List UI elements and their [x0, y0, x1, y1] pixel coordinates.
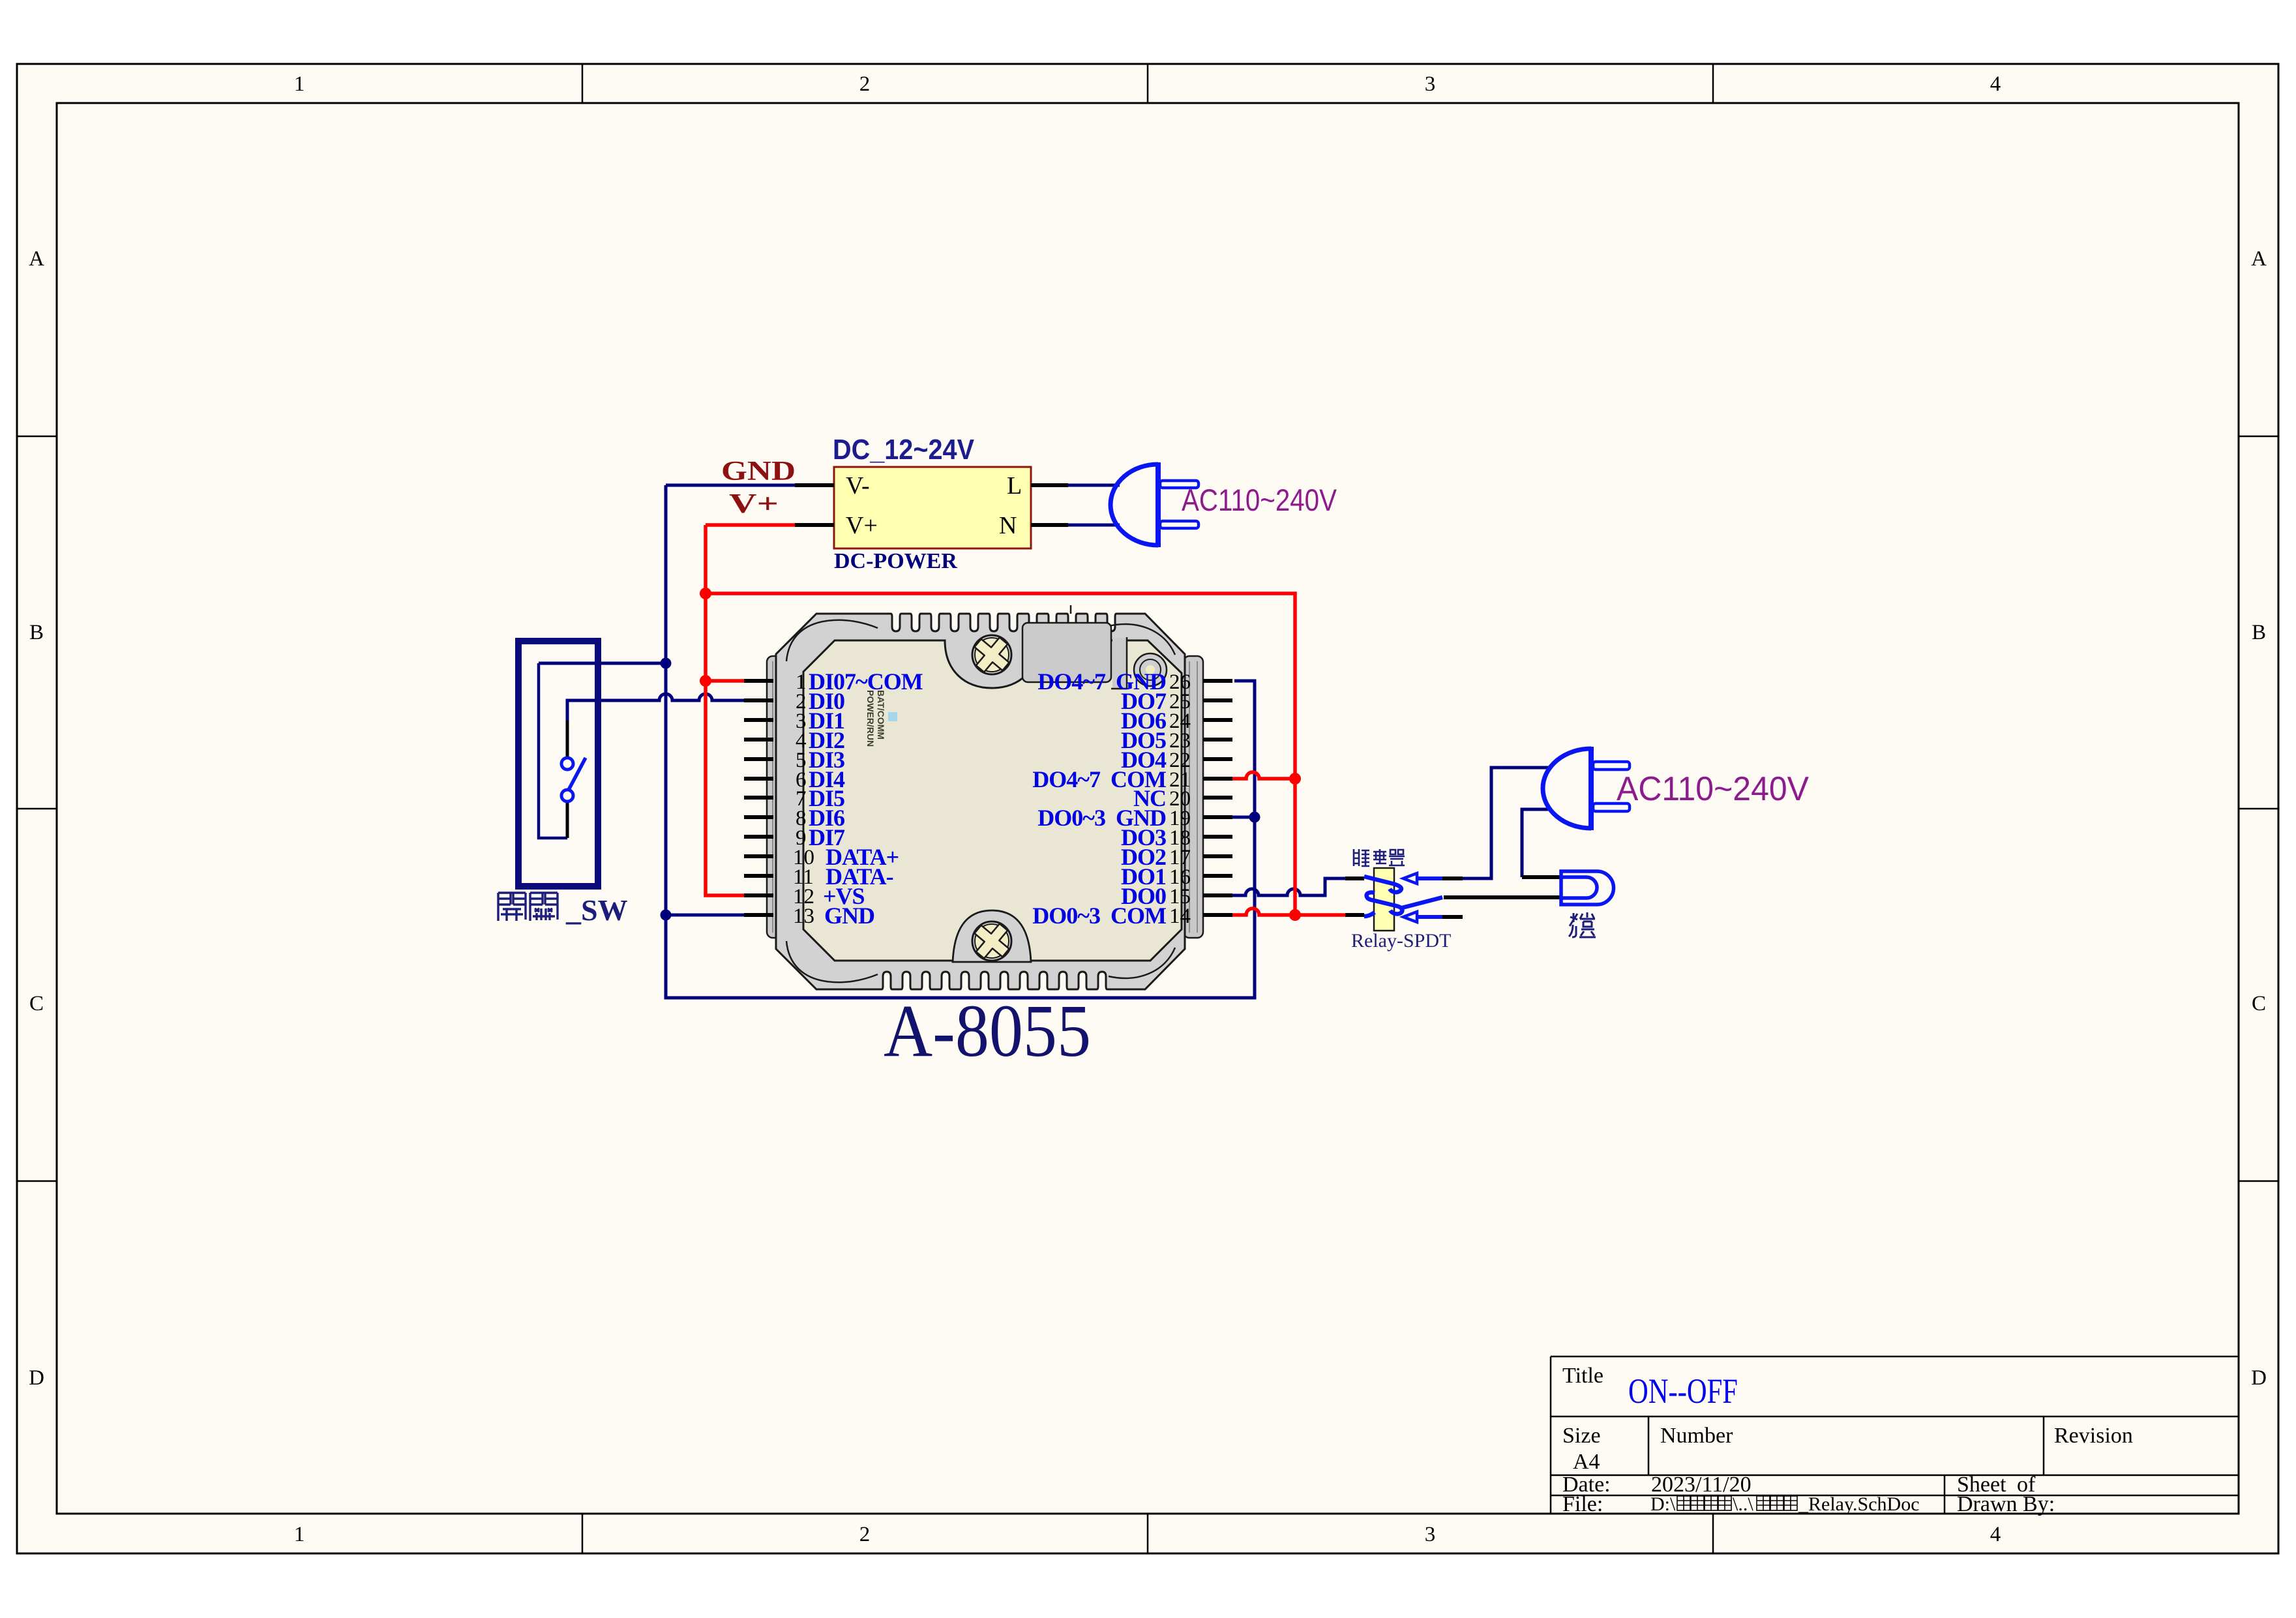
junction V+ top tee [700, 588, 711, 599]
pin labels right [1032, 668, 1167, 929]
switch lead top [566, 721, 569, 757]
label 開關_SW [498, 893, 558, 921]
wire pin19 to bus [1232, 816, 1255, 819]
coil lead bottom [1345, 913, 1364, 917]
pin V+ [795, 523, 834, 527]
svg-text:Relay-SPDT: Relay-SPDT [1351, 930, 1451, 951]
svg-text:Size: Size [1562, 1424, 1601, 1448]
wire pin21 with hop [1232, 772, 1295, 779]
svg-text:A4: A4 [1573, 1450, 1600, 1474]
svg-text:A: A [2251, 247, 2267, 271]
svg-text:2: 2 [859, 1523, 871, 1546]
switch lead bottom [566, 802, 569, 838]
switch contact bottom [561, 790, 573, 802]
wire pin15 to relay coil top [1232, 878, 1345, 895]
coil lead top [1345, 876, 1364, 880]
switch contact top [561, 758, 573, 770]
svg-text:C: C [2252, 992, 2266, 1015]
svg-text:V+: V+ [729, 489, 779, 519]
svg-text:_SW: _SW [565, 893, 628, 927]
pin L [1031, 483, 1068, 487]
inner panel [803, 640, 1182, 961]
pin V- [795, 483, 834, 487]
wire L plug1 [1068, 484, 1120, 487]
contact NO arrow [1403, 873, 1417, 884]
svg-text:POWER/RUN: POWER/RUN [865, 690, 876, 747]
title block [1551, 1356, 2239, 1514]
switch SW1 [518, 641, 598, 886]
svg-text:_Relay.SchDoc: _Relay.SchDoc [1798, 1493, 1920, 1515]
lamp top lead [1522, 875, 1560, 879]
svg-text:Title: Title [1562, 1364, 1603, 1388]
label 燈 [1569, 912, 1596, 937]
screw boss bottom [953, 910, 1031, 962]
wire V+ vertical left [706, 525, 745, 895]
wire switch top to bus [539, 662, 666, 665]
svg-text:B: B [29, 621, 44, 644]
wire to relay coil bottom [1295, 913, 1345, 917]
svg-text:2: 2 [859, 72, 871, 96]
svg-text:V-: V- [846, 472, 870, 500]
svg-text:4: 4 [1990, 72, 2001, 96]
svg-text:4: 4 [1990, 1523, 2001, 1546]
label 繼電器 [1354, 849, 1405, 866]
junction V+ at pin 14 [1289, 909, 1301, 921]
svg-text:GND: GND [824, 903, 874, 929]
svg-text:DC_12~24V: DC_12~24V [833, 434, 975, 466]
wire lamp top to plug2 [1522, 809, 1548, 877]
svg-text:AC110~240V: AC110~240V [1182, 483, 1337, 517]
contact NC arrow [1403, 912, 1417, 922]
switch blade [569, 758, 586, 790]
A-8055 pins right 26-14 [1203, 681, 1232, 915]
svg-text:A-8055: A-8055 [884, 989, 1091, 1072]
svg-text:DC-POWER: DC-POWER [834, 549, 957, 573]
switch body outline [518, 641, 598, 886]
junction GND at pin 19 [1249, 812, 1260, 823]
pin numbers left [793, 670, 814, 928]
A-8055 pins left 1-13 [744, 681, 773, 915]
file path value [1650, 1493, 1920, 1515]
pole blade [1402, 897, 1442, 908]
AC plug P1 [1111, 462, 1199, 547]
DC-POWER module U1 [795, 434, 1068, 573]
svg-text:Number: Number [1660, 1424, 1733, 1448]
switch inner frame [539, 663, 567, 838]
wire V+ to DC-POWER [706, 523, 795, 527]
corner shoulder curves [786, 620, 878, 661]
small top mark [1070, 605, 1072, 614]
svg-text:13: 13 [793, 905, 814, 928]
pin N [1031, 523, 1068, 527]
AC plug P2 [1543, 747, 1630, 830]
wire relay NO to plug2 [1463, 768, 1550, 878]
led blue square [888, 712, 897, 721]
coil winding [1364, 876, 1401, 892]
svg-text:D: D [29, 1366, 44, 1390]
svg-text:N: N [999, 512, 1017, 539]
wire pin13 GND [666, 914, 745, 917]
module A-8055 U2 [767, 605, 1203, 989]
svg-text:Revision: Revision [2054, 1424, 2133, 1448]
relay body [1374, 868, 1394, 931]
gray recess rect [1022, 623, 1111, 682]
svg-text:14: 14 [1169, 905, 1191, 928]
junction GND at switch top [661, 658, 672, 669]
svg-text:D: D [2251, 1366, 2267, 1390]
wire pin1 [706, 679, 745, 683]
wire V+ net (red) [706, 525, 1345, 915]
screw top [972, 635, 1011, 674]
svg-text:BAT/COMM: BAT/COMM [876, 690, 886, 740]
junction V+ at pin 21 [1289, 773, 1301, 785]
right connector band [1184, 656, 1203, 938]
svg-text:3: 3 [1425, 72, 1436, 96]
wire V+ top horizontal to right [706, 593, 1295, 915]
svg-text:D:\: D:\ [1650, 1493, 1676, 1515]
svg-text:ON--OFF: ON--OFF [1628, 1371, 1738, 1411]
wire V- to DC-POWER [666, 484, 795, 487]
pin labels left [809, 668, 923, 929]
svg-text:L: L [1007, 472, 1022, 500]
svg-text:1: 1 [294, 72, 305, 96]
svg-text:1: 1 [294, 1523, 305, 1546]
left connector band [767, 656, 786, 938]
screw bottom [972, 921, 1011, 961]
svg-text:File:: File: [1562, 1492, 1603, 1516]
wire GND vertical bus [666, 485, 1255, 998]
lamp DS1 [1561, 871, 1614, 905]
svg-text:DO0~3 COM: DO0~3 COM [1032, 903, 1166, 929]
junction V+ at pin 1 [700, 675, 711, 687]
svg-text:GND: GND [721, 457, 796, 487]
svg-text:B: B [2252, 621, 2266, 644]
pin numbers right [1169, 670, 1191, 928]
svg-text:AC110~240V: AC110~240V [1617, 770, 1809, 808]
wire pin14 with hop [1232, 908, 1295, 915]
svg-text:V+: V+ [846, 512, 878, 539]
wire N plug1 [1068, 524, 1120, 527]
svg-text:A: A [29, 247, 44, 271]
svg-text:Drawn By:: Drawn By: [1957, 1492, 2055, 1516]
wire GND net (navy) [539, 485, 1550, 998]
indicator hole [1134, 653, 1167, 686]
junction GND at pin 13 [661, 910, 672, 921]
svg-text:\..\: \..\ [1733, 1493, 1753, 1515]
wire pin2 from switch with hops [567, 694, 745, 721]
svg-text:C: C [29, 992, 44, 1015]
svg-text:3: 3 [1425, 1523, 1436, 1546]
body [776, 614, 1185, 989]
relay K1 [1345, 868, 1560, 931]
pole wire to lamp [1444, 895, 1560, 899]
